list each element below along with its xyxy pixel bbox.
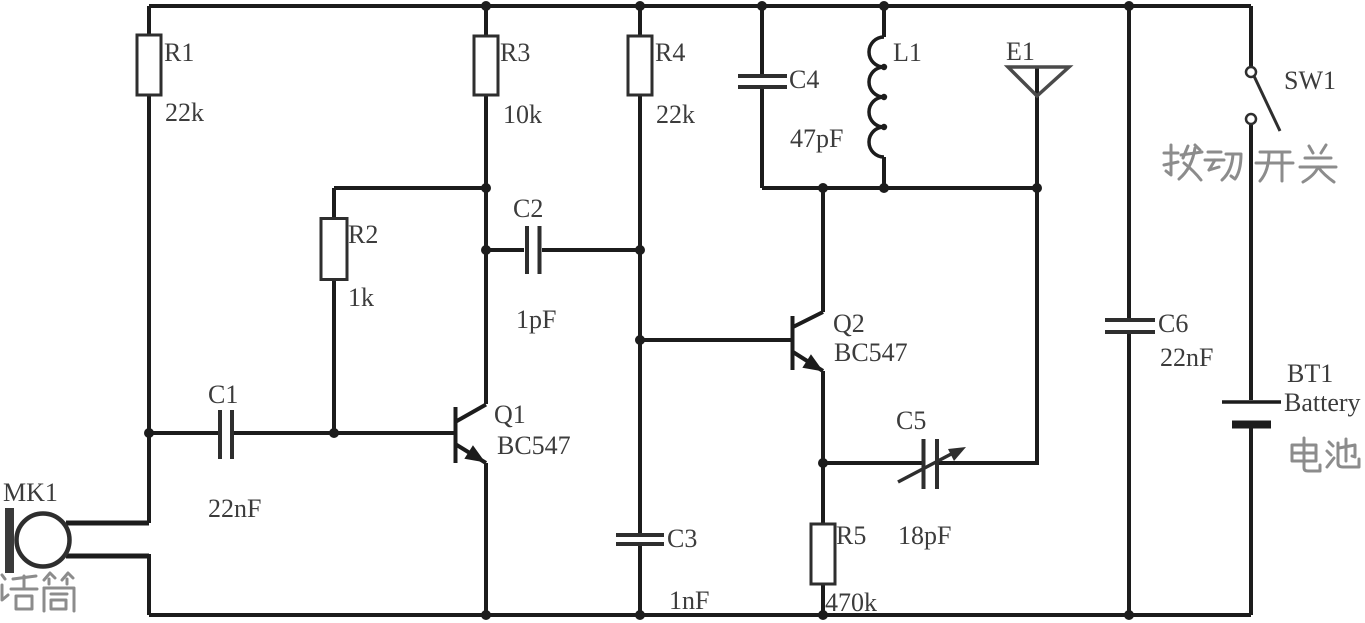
svg-text:22k: 22k (165, 98, 204, 127)
svg-text:R3: R3 (500, 38, 530, 67)
svg-text:18pF: 18pF (898, 521, 951, 550)
svg-text:22k: 22k (656, 100, 695, 129)
svg-text:R1: R1 (164, 38, 194, 67)
svg-text:1pF: 1pF (516, 305, 556, 334)
svg-text:C1: C1 (208, 380, 238, 409)
svg-text:1k: 1k (348, 283, 374, 312)
svg-text:C5: C5 (896, 406, 926, 435)
svg-text:Battery: Battery (1284, 388, 1361, 417)
svg-text:Q2: Q2 (833, 309, 865, 338)
svg-text:L1: L1 (893, 38, 922, 67)
svg-text:SW1: SW1 (1284, 66, 1336, 95)
svg-text:BC547: BC547 (834, 338, 908, 367)
svg-text:470k: 470k (825, 588, 877, 617)
svg-text:47pF: 47pF (790, 124, 843, 153)
svg-text:MK1: MK1 (3, 478, 58, 507)
svg-text:BC547: BC547 (497, 431, 571, 460)
svg-text:C2: C2 (513, 194, 543, 223)
svg-text:BT1: BT1 (1287, 359, 1333, 388)
svg-text:10k: 10k (503, 100, 542, 129)
svg-text:E1: E1 (1006, 37, 1035, 66)
svg-text:1nF: 1nF (669, 586, 709, 615)
svg-text:R5: R5 (836, 521, 866, 550)
svg-text:C6: C6 (1158, 309, 1188, 338)
svg-text:R4: R4 (655, 38, 685, 67)
svg-text:C3: C3 (667, 524, 697, 553)
svg-text:22nF: 22nF (1160, 343, 1213, 372)
svg-text:C4: C4 (789, 65, 819, 94)
svg-text:R2: R2 (348, 220, 378, 249)
svg-text:22nF: 22nF (208, 494, 261, 523)
svg-text:Q1: Q1 (494, 400, 526, 429)
